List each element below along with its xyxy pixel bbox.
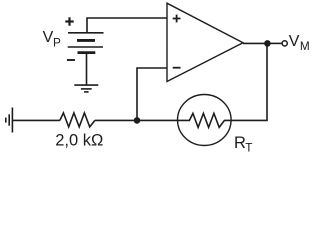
- node B (output junction dot): [264, 40, 271, 47]
- wire: battery positive to op-amp non-inverting input: [87, 18, 167, 33]
- op-amp plus input sign: [173, 15, 181, 23]
- wire: resistor R1 to node A: [95, 119, 137, 121]
- wire: battery negative down to ground GND2: [86, 53, 88, 86]
- svg-text:P: P: [53, 35, 61, 49]
- wire: node B to terminal VM: [267, 42, 282, 44]
- wire: left ground to resistor R1: [12, 119, 60, 121]
- terminal VM (open circle): [282, 41, 287, 46]
- node A (junction dot): [134, 117, 141, 124]
- wire: op-amp output to node B: [243, 42, 267, 44]
- wire: node A to thermistor RT left terminal: [137, 119, 178, 121]
- resistor R1 (2,0 kOhm): [60, 113, 95, 127]
- svg-text:V: V: [289, 33, 300, 50]
- ground GND1 (left, rotated): [6, 108, 13, 133]
- op-amp U1 triangle: [167, 3, 243, 81]
- ground GND2 (below battery): [74, 85, 98, 92]
- wire: node A up and right to op-amp inverting input: [137, 68, 167, 120]
- battery plus sign: [65, 17, 73, 25]
- svg-text:M: M: [300, 39, 310, 53]
- op-amp minus input sign: [173, 67, 181, 69]
- wire: thermistor RT right terminal up to output node B: [231, 43, 267, 120]
- svg-text:T: T: [245, 141, 252, 154]
- thermistor RT (zigzag element): [178, 113, 232, 127]
- battery VP plates: [68, 33, 104, 53]
- svg-text:R: R: [234, 134, 246, 152]
- thermistor RT (circle): [178, 95, 232, 146]
- svg-text:2,0 kΩ: 2,0 kΩ: [55, 131, 103, 149]
- svg-text:V: V: [43, 29, 54, 46]
- battery minus sign: [67, 59, 75, 61]
